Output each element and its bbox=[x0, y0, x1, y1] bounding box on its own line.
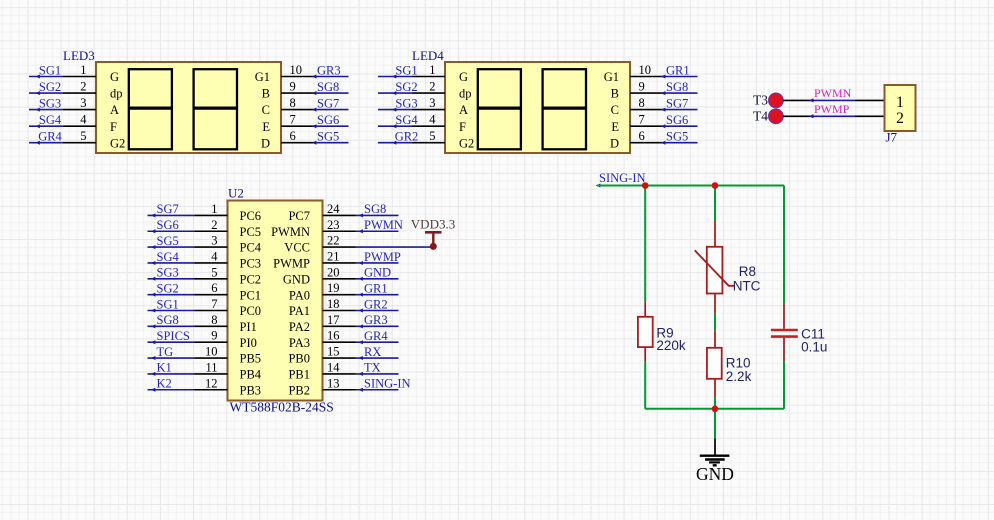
svg-text:SG4: SG4 bbox=[157, 250, 180, 264]
wire net SG1 to LED4 pin 1 bbox=[378, 63, 445, 79]
svg-text:SG5: SG5 bbox=[317, 130, 339, 144]
svg-text:4: 4 bbox=[211, 249, 218, 263]
svg-text:SG2: SG2 bbox=[395, 80, 417, 94]
svg-text:10: 10 bbox=[639, 63, 652, 77]
wire net SG8 to LED4 pin 9 bbox=[630, 80, 698, 96]
svg-text:3: 3 bbox=[80, 96, 86, 110]
svg-text:12: 12 bbox=[205, 376, 218, 390]
wire net SG1 to U2 pin 7 bbox=[148, 297, 228, 313]
svg-text:5: 5 bbox=[429, 129, 435, 143]
svg-text:VDD3.3: VDD3.3 bbox=[411, 217, 455, 232]
svg-text:3: 3 bbox=[211, 234, 217, 248]
wire net K2 to U2 pin 12 bbox=[148, 376, 228, 392]
svg-text:23: 23 bbox=[327, 218, 340, 232]
wire right branch lower bbox=[783, 362, 785, 409]
LED4 pin names bbox=[459, 70, 619, 150]
svg-text:PWMP: PWMP bbox=[364, 250, 401, 264]
svg-text:A: A bbox=[459, 103, 468, 117]
svg-text:GR4: GR4 bbox=[364, 329, 388, 343]
wire net SG2 to LED3 pin 2 bbox=[29, 80, 96, 96]
wire net K1 to U2 pin 11 bbox=[148, 360, 228, 376]
wire net GR3 to U2 pin 17 bbox=[323, 313, 399, 329]
wire between R8 and R10 bbox=[714, 314, 716, 331]
connector J7 body bbox=[885, 85, 916, 131]
svg-text:0.1u: 0.1u bbox=[801, 339, 827, 354]
wire net SG6 to U2 pin 2 bbox=[148, 218, 228, 234]
svg-text:7: 7 bbox=[211, 297, 217, 311]
svg-text:PB0: PB0 bbox=[288, 352, 310, 366]
thermistor R8 (NTC) bbox=[695, 222, 735, 314]
svg-text:PC3: PC3 bbox=[240, 257, 262, 271]
svg-text:21: 21 bbox=[327, 249, 340, 263]
svg-text:TX: TX bbox=[364, 361, 381, 375]
svg-text:PC2: PC2 bbox=[240, 272, 262, 286]
svg-text:G2: G2 bbox=[110, 136, 125, 150]
7-segment display LED4 body bbox=[445, 62, 630, 153]
junction at R8 branch top bbox=[712, 182, 719, 189]
svg-text:PWMP: PWMP bbox=[814, 102, 850, 116]
power symbol VDD3.3 bbox=[411, 217, 455, 250]
svg-text:PI0: PI0 bbox=[240, 336, 257, 350]
svg-text:SG1: SG1 bbox=[157, 297, 179, 311]
capacitor C11 bbox=[771, 303, 798, 362]
U2 pin names bbox=[240, 209, 311, 397]
svg-text:E: E bbox=[262, 120, 270, 134]
svg-text:22: 22 bbox=[327, 234, 340, 248]
svg-text:2: 2 bbox=[211, 218, 217, 232]
wire net GR1 to LED4 pin 10 bbox=[630, 63, 698, 79]
wire left branch upper bbox=[644, 186, 646, 303]
svg-text:J7: J7 bbox=[886, 130, 898, 145]
wire net SG3 to LED3 pin 3 bbox=[29, 96, 96, 112]
svg-text:F: F bbox=[459, 120, 466, 134]
svg-text:1: 1 bbox=[211, 202, 217, 216]
wire net PWMN to U2 pin 23 bbox=[323, 218, 403, 234]
wire net PWMN from T3 to J7 pin 1 bbox=[783, 86, 884, 103]
7-segment display LED3 body bbox=[96, 62, 281, 153]
svg-text:13: 13 bbox=[327, 376, 340, 390]
svg-text:PC4: PC4 bbox=[240, 241, 262, 255]
svg-text:4: 4 bbox=[80, 113, 87, 127]
svg-text:SG5: SG5 bbox=[666, 130, 688, 144]
svg-text:220k: 220k bbox=[656, 338, 686, 353]
svg-text:3: 3 bbox=[429, 96, 435, 110]
svg-text:SG8: SG8 bbox=[157, 313, 179, 327]
svg-text:9: 9 bbox=[211, 329, 217, 343]
wire net SG3 to U2 pin 5 bbox=[148, 265, 228, 281]
svg-text:PA3: PA3 bbox=[289, 336, 310, 350]
wire net GR1 to U2 pin 19 bbox=[323, 281, 399, 297]
wire net TX to U2 pin 14 bbox=[323, 360, 399, 376]
svg-text:SING-IN: SING-IN bbox=[364, 377, 411, 391]
wire net SPICS to U2 pin 9 bbox=[148, 329, 228, 345]
wire net SG4 to U2 pin 4 bbox=[148, 249, 228, 265]
svg-text:SG1: SG1 bbox=[395, 63, 417, 77]
wire net SG3 to LED4 pin 3 bbox=[378, 96, 445, 112]
wire net SG7 to LED4 pin 8 bbox=[630, 96, 698, 112]
svg-text:PA0: PA0 bbox=[289, 288, 310, 302]
svg-text:SG7: SG7 bbox=[666, 96, 688, 110]
svg-text:SG2: SG2 bbox=[157, 281, 179, 295]
svg-text:PB2: PB2 bbox=[288, 383, 310, 397]
svg-text:6: 6 bbox=[639, 129, 645, 143]
svg-text:7: 7 bbox=[639, 113, 645, 127]
svg-text:4: 4 bbox=[429, 113, 436, 127]
svg-text:RX: RX bbox=[364, 345, 381, 359]
wire to ground bbox=[714, 409, 716, 439]
svg-text:SG7: SG7 bbox=[317, 96, 339, 110]
svg-text:5: 5 bbox=[211, 265, 217, 279]
wire net TG to U2 pin 10 bbox=[148, 345, 228, 361]
wire net SING-IN to U2 pin 13 bbox=[323, 376, 411, 392]
wire net SG6 to LED3 pin 7 bbox=[281, 113, 349, 129]
wire below R10 bbox=[714, 398, 716, 409]
wire net GR2 to LED4 pin 5 bbox=[378, 129, 445, 145]
svg-text:PC7: PC7 bbox=[288, 209, 310, 223]
svg-text:GR3: GR3 bbox=[364, 313, 388, 327]
svg-text:1: 1 bbox=[80, 63, 86, 77]
svg-text:17: 17 bbox=[327, 313, 340, 327]
svg-text:K2: K2 bbox=[157, 377, 172, 391]
svg-text:LED4: LED4 bbox=[412, 48, 444, 63]
svg-text:7: 7 bbox=[290, 113, 296, 127]
svg-text:U2: U2 bbox=[228, 186, 244, 201]
svg-text:SG3: SG3 bbox=[39, 96, 61, 110]
svg-text:D: D bbox=[610, 136, 619, 150]
ground symbol bbox=[700, 439, 730, 466]
svg-text:PI1: PI1 bbox=[240, 320, 257, 334]
svg-text:K1: K1 bbox=[157, 361, 172, 375]
svg-text:LED3: LED3 bbox=[63, 48, 95, 63]
wire net GR4 to LED3 pin 5 bbox=[29, 129, 96, 145]
svg-text:PB3: PB3 bbox=[240, 383, 262, 397]
svg-text:10: 10 bbox=[205, 345, 218, 359]
test point T3 bbox=[753, 93, 783, 108]
svg-text:B: B bbox=[262, 87, 270, 101]
junction at SING-IN / R9 branch bbox=[642, 182, 649, 189]
svg-text:G1: G1 bbox=[255, 70, 270, 84]
svg-text:T4: T4 bbox=[753, 109, 768, 124]
svg-text:6: 6 bbox=[211, 281, 217, 295]
wire net SG8 to U2 pin 24 bbox=[323, 202, 399, 218]
svg-text:GR1: GR1 bbox=[666, 63, 690, 77]
svg-text:GR3: GR3 bbox=[317, 63, 341, 77]
net label SING-IN bbox=[596, 171, 646, 188]
wire U2 pin 22 to VDD3.3 bbox=[323, 234, 434, 248]
svg-text:1: 1 bbox=[429, 63, 435, 77]
svg-text:SG8: SG8 bbox=[317, 80, 339, 94]
svg-text:9: 9 bbox=[639, 80, 645, 94]
svg-text:E: E bbox=[611, 120, 619, 134]
svg-text:18: 18 bbox=[327, 297, 340, 311]
svg-text:SING-IN: SING-IN bbox=[599, 171, 646, 185]
svg-text:B: B bbox=[611, 87, 619, 101]
svg-text:PC5: PC5 bbox=[240, 225, 262, 239]
wire bottom rail bbox=[645, 408, 784, 410]
wire net SG5 to LED4 pin 6 bbox=[630, 129, 698, 145]
svg-text:SG7: SG7 bbox=[157, 202, 179, 216]
svg-text:SG3: SG3 bbox=[157, 266, 179, 280]
wire net SG2 to LED4 pin 2 bbox=[378, 80, 445, 96]
svg-text:15: 15 bbox=[327, 345, 340, 359]
wire left branch lower bbox=[644, 361, 646, 409]
wire net GR3 to LED3 pin 10 bbox=[281, 63, 349, 79]
svg-text:WT588F02B-24SS: WT588F02B-24SS bbox=[230, 400, 334, 415]
svg-text:GND: GND bbox=[696, 464, 734, 484]
svg-text:14: 14 bbox=[327, 360, 340, 374]
wire net GR4 to U2 pin 16 bbox=[323, 329, 399, 345]
svg-text:PB1: PB1 bbox=[288, 368, 310, 382]
svg-text:PB5: PB5 bbox=[240, 352, 262, 366]
wire net RX to U2 pin 15 bbox=[323, 345, 399, 361]
svg-text:D: D bbox=[261, 136, 270, 150]
svg-text:SG6: SG6 bbox=[157, 218, 179, 232]
svg-text:G1: G1 bbox=[604, 70, 619, 84]
svg-text:G2: G2 bbox=[459, 136, 474, 150]
svg-text:2.2k: 2.2k bbox=[726, 369, 752, 384]
wire middle branch upper bbox=[714, 186, 716, 223]
svg-text:PWMP: PWMP bbox=[273, 257, 310, 271]
svg-text:GR2: GR2 bbox=[364, 297, 388, 311]
svg-text:A: A bbox=[110, 103, 119, 117]
svg-text:SG6: SG6 bbox=[666, 113, 688, 127]
wire net GND to U2 pin 20 bbox=[323, 265, 399, 281]
wire net SG8 to LED3 pin 9 bbox=[281, 80, 349, 96]
svg-text:6: 6 bbox=[290, 129, 296, 143]
svg-text:C: C bbox=[262, 103, 270, 117]
svg-text:2: 2 bbox=[896, 110, 904, 127]
svg-text:SPICS: SPICS bbox=[157, 329, 190, 343]
svg-text:16: 16 bbox=[327, 329, 340, 343]
wire SING-IN top rail bbox=[597, 185, 784, 187]
test point T4 bbox=[753, 109, 783, 124]
IC U2 body bbox=[228, 201, 323, 401]
svg-text:SG4: SG4 bbox=[39, 113, 62, 127]
svg-text:SG3: SG3 bbox=[395, 96, 417, 110]
svg-text:20: 20 bbox=[327, 265, 340, 279]
wire net PWMP to U2 pin 21 bbox=[323, 249, 401, 265]
svg-text:dp: dp bbox=[459, 87, 472, 101]
wire net SG4 to LED3 pin 4 bbox=[29, 113, 96, 129]
svg-text:NTC: NTC bbox=[733, 278, 761, 293]
svg-text:PA1: PA1 bbox=[289, 304, 310, 318]
svg-text:SG6: SG6 bbox=[317, 113, 339, 127]
svg-text:G: G bbox=[459, 70, 468, 84]
wire net SG7 to U2 pin 1 bbox=[148, 202, 228, 218]
svg-text:2: 2 bbox=[80, 80, 86, 94]
svg-text:SG8: SG8 bbox=[666, 80, 688, 94]
svg-text:dp: dp bbox=[110, 87, 123, 101]
svg-text:8: 8 bbox=[211, 313, 217, 327]
svg-text:8: 8 bbox=[639, 96, 645, 110]
svg-text:GR2: GR2 bbox=[395, 130, 419, 144]
svg-text:PWMN: PWMN bbox=[271, 225, 310, 239]
svg-text:GR4: GR4 bbox=[38, 130, 62, 144]
junction at bottom rail / ground bbox=[712, 406, 719, 413]
wire net SG4 to LED4 pin 4 bbox=[378, 113, 445, 129]
svg-text:GR1: GR1 bbox=[364, 281, 388, 295]
svg-text:PC1: PC1 bbox=[240, 288, 262, 302]
svg-text:2: 2 bbox=[429, 80, 435, 94]
svg-text:TG: TG bbox=[157, 345, 174, 359]
svg-text:VCC: VCC bbox=[284, 241, 310, 255]
svg-text:PWMN: PWMN bbox=[814, 86, 852, 100]
svg-text:PWMN: PWMN bbox=[364, 218, 403, 232]
svg-text:19: 19 bbox=[327, 281, 340, 295]
svg-text:SG1: SG1 bbox=[39, 63, 61, 77]
svg-text:10: 10 bbox=[290, 63, 303, 77]
wire net SG1 to LED3 pin 1 bbox=[29, 63, 96, 79]
LED3 pin names bbox=[110, 70, 270, 150]
svg-text:C: C bbox=[611, 103, 619, 117]
svg-text:GND: GND bbox=[364, 266, 391, 280]
svg-text:8: 8 bbox=[290, 96, 296, 110]
wire net SG8 to U2 pin 8 bbox=[148, 313, 228, 329]
svg-text:R8: R8 bbox=[739, 264, 756, 279]
wire net SG6 to LED4 pin 7 bbox=[630, 113, 698, 129]
wire right branch upper bbox=[783, 186, 785, 304]
resistor R10 bbox=[707, 330, 722, 397]
svg-text:SG2: SG2 bbox=[39, 80, 61, 94]
svg-text:5: 5 bbox=[80, 129, 86, 143]
wire net SG7 to LED3 pin 8 bbox=[281, 96, 349, 112]
svg-text:G: G bbox=[110, 70, 119, 84]
svg-text:PB4: PB4 bbox=[240, 368, 262, 382]
svg-text:F: F bbox=[110, 120, 117, 134]
svg-text:PC6: PC6 bbox=[240, 209, 262, 223]
svg-text:PA2: PA2 bbox=[289, 320, 310, 334]
svg-text:PC0: PC0 bbox=[240, 304, 262, 318]
svg-text:1: 1 bbox=[896, 94, 904, 111]
svg-text:SG8: SG8 bbox=[364, 202, 386, 216]
wire net SG5 to LED3 pin 6 bbox=[281, 129, 349, 145]
svg-text:SG5: SG5 bbox=[157, 234, 179, 248]
wire net GR2 to U2 pin 18 bbox=[323, 297, 399, 313]
resistor R9 bbox=[638, 302, 653, 361]
svg-text:T3: T3 bbox=[753, 93, 768, 108]
svg-text:SG4: SG4 bbox=[395, 113, 418, 127]
wire net SG5 to U2 pin 3 bbox=[148, 234, 228, 250]
svg-text:GND: GND bbox=[283, 272, 310, 286]
wire net PWMP from T4 to J7 pin 2 bbox=[783, 102, 884, 119]
svg-text:11: 11 bbox=[205, 360, 217, 374]
svg-text:9: 9 bbox=[290, 80, 296, 94]
svg-text:24: 24 bbox=[327, 202, 340, 216]
wire net SG2 to U2 pin 6 bbox=[148, 281, 228, 297]
